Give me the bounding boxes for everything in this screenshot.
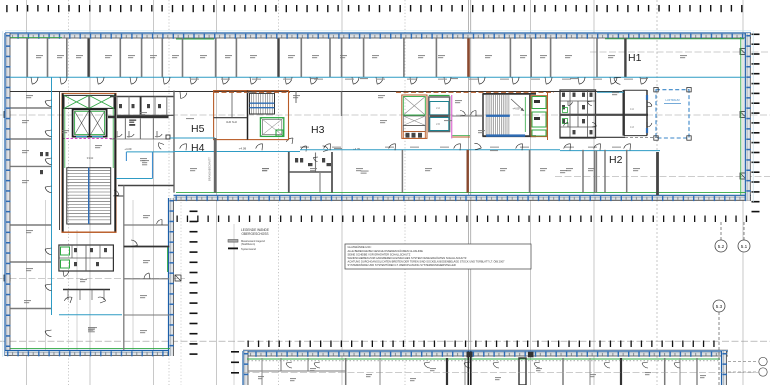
wing cell label cluster [129,120,136,126]
door arc H5 room [181,93,187,99]
svg-text:+4.09: +4.09 [239,147,247,151]
svg-text:H4: H4 [191,142,205,154]
dimension labels above south corridor wall [300,147,621,148]
bottom strip east band [722,351,728,385]
svg-text:214: 214 [436,107,441,110]
svg-text:(Stahlbeton): (Stahlbeton) [241,242,255,246]
wing lower big room label [88,327,97,328]
stair flight S1 [250,93,275,114]
svg-text:+4.09: +4.09 [124,147,132,151]
core S1 inner walls [214,91,248,140]
horizontal grid line through strip [243,371,758,373]
south office partitions [402,150,626,193]
room labels wing [22,95,150,333]
svg-text:4HR SH2: 4HR SH2 [226,120,238,124]
markers right of bottom strip [728,357,767,376]
door arcs toilets H3 [301,146,329,162]
green service rooms right of stair [531,96,547,137]
stair core S2 orange outline [62,93,116,232]
small ticks left of bottom strip [231,351,239,374]
svg-text:215: 215 [436,123,441,126]
core S1 green room [260,118,283,137]
S5 bottom wall [560,136,660,138]
section marker 5.1 [738,222,750,252]
door arcs wing east rooms [113,190,162,279]
svg-text:SEINE SCHEIBE VOR ERHÖHTER SCH: SEINE SCHEIBE VOR ERHÖHTER SCHALLSCHUTZ [348,253,411,257]
rooms right of S3 [452,111,482,138]
wing west office partitions [11,108,52,309]
svg-text:ACHTUNG DURCHGANGSLICHTEN BREI: ACHTUNG DURCHGANGSLICHTEN BREITEN DER TÜ… [348,260,506,264]
legend walls [228,228,269,251]
central stair S4 [482,94,536,137]
wing corridor east wall [59,92,61,231]
tick column east of wing [190,211,198,355]
svg-text:OBERGESCHOSS: OBERGESCHOSS [241,232,268,236]
bottom strip upper thin line [243,349,728,351]
wing corridor edge x116 [116,97,118,197]
bottom strip extra partitions [262,358,680,385]
wing toilet cluster [59,245,114,271]
bottom strip inner dotted line [248,360,720,362]
svg-text:GLASWÄNDE H3C:: GLASWÄNDE H3C: [348,245,372,249]
svg-text:+4.09: +4.09 [512,106,520,110]
facade axis ticks top row [6,5,742,12]
room labels south offices [190,168,640,171]
tick column right of east facade [752,34,760,213]
svg-text:ALLE BEREICHE BEI GESCHLOSSENE: ALLE BEREICHE BEI GESCHLOSSENEN RÄUMEN G… [348,249,424,253]
S5 spine wall [560,114,648,116]
corridor south wall [10,91,622,93]
west office fixtures [40,152,49,174]
toilet cluster south of H3 [289,152,332,193]
south corridor glass wall [174,150,661,152]
wing rooms below toilets [108,116,169,139]
outer cyan offset lines [5,30,751,32]
north office partitions [27,39,597,78]
svg-text:LUFTRAUM: LUFTRAUM [665,98,679,102]
stair core S1 orange outline [214,91,289,140]
bottom strip west facade band [243,351,249,385]
wing dark wall y185 [118,185,174,187]
blue door frames on hall wall [646,95,648,133]
door arcs south corridor [180,143,631,150]
dim labels corridor [186,78,648,151]
heavy north partitions [89,39,626,78]
svg-text:3342: 3342 [87,156,94,160]
wing south facade band [5,351,174,357]
wing east facade band [169,198,175,356]
wing H4 corridor glass L [116,152,174,179]
svg-text:+4.09: +4.09 [353,147,361,151]
tick row above bottom strip [248,341,715,348]
west facade band (wing) [5,33,11,356]
wing stall row [63,290,110,301]
bottom strip door arcs [286,362,680,368]
elevator shafts S2 [73,109,107,136]
section marker 5.2 [715,222,727,252]
H3 area partition [341,92,343,117]
wing toilet row upper [110,97,174,116]
wing toilet fixtures [74,248,107,266]
core S2 top rooms with diagonal braces [64,95,114,108]
teal link line S5 to hall [597,91,624,93]
orange dashes along core tops [214,91,554,93]
svg-text:H5: H5 [191,123,205,135]
svg-text:5.2: 5.2 [718,244,725,249]
magenta line S3 [451,95,453,138]
svg-text:H3: H3 [311,124,325,136]
section marker 5.3 [713,300,725,385]
core S4 right orange wall [547,92,549,140]
grid markers on facades [4,49,746,282]
hall block east of S5 [624,90,652,136]
svg-text:SYSTEMWÄNDE UND SYSTEMTÜREN LT: SYSTEMWÄNDE UND SYSTEMTÜREN LT. WERKPLAN… [348,263,456,267]
elevator shafts S3 [429,96,450,132]
S5 internal walls [560,90,596,138]
wing door arc right [158,143,161,150]
bottom strip interior walls [249,358,698,385]
svg-text:WANDSCHEIBEN ZUM GANGBEREICH E: WANDSCHEIBEN ZUM GANGBEREICH EINFACHES S… [348,256,467,260]
room number labels north offices [36,55,687,58]
wing east lower partitions [116,186,169,351]
south fire wall brown [467,150,469,193]
north corridor glass wall [10,76,745,78]
svg-text:412: 412 [630,108,635,111]
S5 green bits [563,108,568,124]
svg-text:5.1: 5.1 [741,244,748,249]
glass walls note box [345,244,531,269]
atrium void dashed rectangle [654,88,691,141]
core S2 green lining [64,108,66,168]
bottom strip expansion joint wall [467,352,534,385]
room labels middle zone [262,92,619,173]
stair flight S2 [67,168,111,224]
bottom strip labels [258,368,706,381]
fire wall north segment [467,39,470,78]
bottom strip north facade band [243,351,728,357]
S5 door arcs [564,101,597,127]
wing east boundary wall [173,91,175,193]
door arcs wing lower [63,271,106,303]
H3 left wall stub and arc [295,92,297,104]
core S2 side walls [62,93,64,232]
wing corridor glass wall [51,77,53,315]
horizontal grid lines [0,52,770,341]
wing lower glass wall [59,314,122,316]
room label big office south H3 [361,171,369,172]
S5 fixtures [562,93,593,135]
svg-text:Systemwand: Systemwand [241,247,256,251]
east facade band [745,33,751,201]
svg-text:H1: H1 [628,52,642,64]
core S3 braced rooms [403,97,425,126]
magenta smoke line S2 [62,138,116,140]
toilet core S5 outline [560,90,596,138]
wing internal grid lines [46,200,234,385]
green inner facade lines [605,38,744,40]
main south facade band [174,195,752,201]
tick row below main bar [177,216,748,223]
wing room label y280 [80,279,87,280]
fire wall x216 vertical [214,138,217,193]
svg-text:5.3: 5.3 [716,304,723,309]
green line right of stair [524,97,526,132]
core S2 bottom orange [62,231,116,233]
door arcs wing corridor [45,100,51,337]
svg-text:BRANDABSCHNITT: BRANDABSCHNITT [208,157,212,181]
H5 H4 divider glass [170,137,215,139]
stair S4 up-arrow [511,99,524,111]
north facade band [5,33,751,39]
core S3 lower toilet [403,125,425,138]
dimension labels under north corridor wall [190,79,633,80]
core S3 orange outline [402,95,427,138]
svg-text:H2: H2 [609,154,623,166]
wing room label mid [142,160,149,161]
wing grid marker box [166,135,170,139]
hall south boundary wall thick [656,152,659,195]
door arc H1 room [614,78,620,84]
door arcs north corridor [31,77,647,84]
svg-text:413: 413 [630,126,635,129]
